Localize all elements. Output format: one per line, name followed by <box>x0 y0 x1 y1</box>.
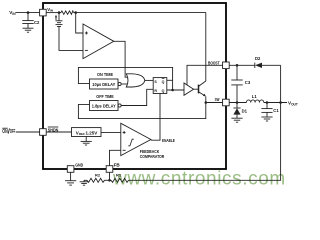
svg-text:D2: D2 <box>255 56 261 61</box>
svg-text:ENABLE: ENABLE <box>162 138 175 143</box>
wire OFF delay to latch R <box>121 89 153 105</box>
pin SW <box>223 99 230 106</box>
wire FB pin to comparator minus <box>110 150 121 165</box>
svg-text:C1: C1 <box>273 108 279 113</box>
wire emitter to SW <box>206 96 223 102</box>
pin FB <box>106 166 113 173</box>
label SHDN pin <box>48 127 59 133</box>
wire BOOST supply to driver <box>187 65 223 84</box>
svg-text:R1: R1 <box>116 173 122 178</box>
transistor Q1 <box>194 81 206 96</box>
capacitor C3 boost <box>231 65 242 102</box>
label ON OFF <box>2 128 15 135</box>
wire bandgap to A1 minus <box>59 27 83 51</box>
ground catch diode <box>231 118 242 122</box>
resistor sense <box>61 11 74 14</box>
current source arrow <box>55 15 57 20</box>
capacitor C1 output <box>261 103 272 117</box>
node Q output junction <box>171 89 174 92</box>
bubble ON delay output <box>118 82 121 85</box>
wire internal VIN rail <box>46 12 61 14</box>
wire collector to VIN rail <box>205 13 207 81</box>
svg-text:www.cntronics.com: www.cntronics.com <box>112 169 286 190</box>
wire rail to A1 plus <box>76 13 83 33</box>
svg-text:VIN: VIN <box>47 7 53 13</box>
comparator feedback <box>121 123 151 155</box>
one-shot OFF delay box <box>90 101 119 111</box>
wire D2 to VOUT <box>280 65 282 102</box>
node boost cap junction <box>236 64 239 67</box>
wire SHDN to VREF <box>46 131 71 133</box>
gate OR U2 <box>126 74 145 87</box>
svg-text:Q: Q <box>162 89 165 93</box>
wire VOUT to divider <box>129 103 281 181</box>
box VREF <box>72 128 102 137</box>
svg-text:1.8µs DELAY: 1.8µs DELAY <box>92 103 116 108</box>
svg-text:OFF: OFF <box>10 129 15 135</box>
svg-text:D1: D1 <box>242 109 248 114</box>
wire latch enable from comparator <box>151 94 160 141</box>
one-shot ON delay box <box>90 79 119 89</box>
op-amp A1 <box>83 24 114 59</box>
capacitor C2 <box>22 13 33 29</box>
svg-text:L1: L1 <box>252 94 258 99</box>
svg-text:C3: C3 <box>245 80 251 85</box>
IC boundary <box>43 3 226 169</box>
node bandgap tap <box>58 11 61 14</box>
latch SR U3 <box>153 78 167 94</box>
node input junction <box>27 11 30 14</box>
wire SW node <box>229 102 246 104</box>
wire BOOST to diode <box>229 64 255 66</box>
svg-text:SW: SW <box>215 97 220 102</box>
wire OFF one-shot trigger from SW <box>78 102 205 119</box>
ground output cap <box>261 117 272 121</box>
pin SHDN <box>40 129 47 136</box>
node catch diode junction <box>236 101 239 104</box>
wire latch Qbar stub <box>167 79 173 81</box>
resistor R2 <box>87 178 105 182</box>
svg-text:R2: R2 <box>95 173 101 178</box>
bubble OFF delay output <box>118 104 121 107</box>
node FB divider junction <box>108 179 111 182</box>
wire latch Q output <box>167 89 184 91</box>
svg-text:Q: Q <box>162 80 165 84</box>
svg-text:10µs DELAY: 10µs DELAY <box>92 82 115 87</box>
wire latch feedback top loop <box>78 67 172 90</box>
pin BOOST <box>223 62 230 69</box>
wire VIN lead <box>16 12 40 14</box>
driver buffer <box>184 83 194 95</box>
svg-text:SHDN: SHDN <box>48 127 59 133</box>
wire A1 output <box>114 41 128 77</box>
wire OR output to latch S <box>145 79 153 81</box>
bandgap reference stack <box>56 13 63 27</box>
svg-text:COMPARATOR: COMPARATOR <box>140 154 165 159</box>
ground VREF <box>81 137 92 146</box>
diode D1 catch <box>233 103 240 119</box>
resistor R1 <box>111 178 129 182</box>
node comparator tap <box>74 11 77 14</box>
wire FB pin to divider <box>109 172 111 180</box>
node output cap junction <box>266 101 269 104</box>
wire VREF to comparator plus <box>101 131 121 133</box>
wire FB junction <box>105 179 112 181</box>
svg-text:OFF TIME: OFF TIME <box>96 94 114 99</box>
node SW emitter junction <box>205 101 208 104</box>
svg-text:ON: ON <box>2 129 8 135</box>
wire rail to collector drop <box>74 12 206 14</box>
wire ON OFF lead <box>16 131 40 133</box>
ground input cap <box>23 28 34 32</box>
svg-text:GND: GND <box>75 162 84 167</box>
wire L1 to VOUT <box>264 102 287 104</box>
pin GND <box>67 166 74 173</box>
svg-text:R: R <box>154 89 157 93</box>
diode D2 boost <box>255 63 281 68</box>
ground GND pin <box>65 172 76 185</box>
wire ON delay to OR <box>121 83 129 85</box>
svg-text:C2: C2 <box>34 20 40 25</box>
svg-text:BOOST: BOOST <box>208 60 220 65</box>
ground divider <box>80 180 89 185</box>
svg-text:FB: FB <box>114 162 121 167</box>
svg-text:ON TIME: ON TIME <box>97 72 113 77</box>
pin VIN <box>40 9 47 16</box>
inductor L1 <box>246 100 263 103</box>
node VOUT junction <box>279 101 282 104</box>
